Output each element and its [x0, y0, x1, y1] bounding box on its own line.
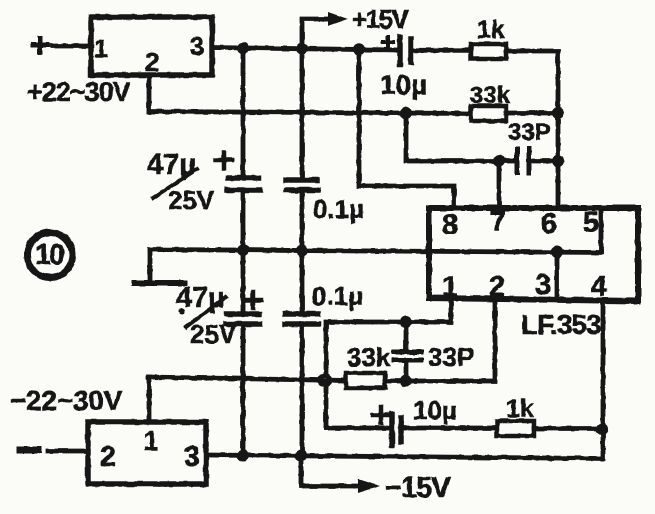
svg-text:3: 3	[535, 269, 551, 301]
node dot at V+ branch	[353, 43, 365, 55]
svg-text:25V: 25V	[168, 185, 215, 215]
plus mark C5	[383, 37, 393, 47]
capacitor C1 47u/25V (upper) wire top	[241, 48, 246, 175]
svg-text:4: 4	[591, 271, 607, 303]
wire R3 to pin2 branch	[385, 300, 495, 381]
wire + input to U1 pin1	[52, 44, 91, 49]
wire V+ branch to pin8	[359, 49, 454, 207]
C8 stub bottom	[404, 362, 409, 381]
wire feedback node to C6	[326, 426, 391, 431]
plus mark C1	[216, 152, 232, 168]
minus input terminal	[20, 447, 38, 454]
node dot 33k/33P left	[400, 107, 412, 119]
capacitor C2 0.1u (upper) wire top	[300, 48, 305, 177]
wire pin2 ground rail to 33k	[149, 112, 471, 114]
wire R1 to pin6 branch	[506, 51, 558, 207]
svg-text:33P: 33P	[428, 342, 474, 372]
wire - input to U2 pin2	[48, 449, 88, 454]
C1 wire bottom	[241, 192, 246, 250]
figure number circle 10	[28, 233, 73, 278]
svg-text:3: 3	[190, 31, 204, 61]
node dot 33P lower bottom	[400, 375, 412, 387]
svg-text:6: 6	[541, 208, 557, 240]
wire node down to 33P row	[406, 113, 516, 161]
junction feedback node	[318, 373, 332, 387]
svg-text:1k: 1k	[506, 395, 534, 423]
resistor R4 1k (lower)	[497, 421, 534, 436]
node dot 47u bottom	[237, 450, 249, 462]
ground rail (mid)	[150, 250, 601, 253]
fraction slash lower	[186, 297, 226, 327]
wire R2 to pin6 node	[506, 111, 558, 116]
+15V arrowhead	[328, 12, 348, 26]
node dot pin4 branch	[596, 423, 608, 435]
node dot 33P/pin6	[552, 155, 564, 167]
svg-text:3: 3	[184, 441, 200, 473]
node dot rail/pin6	[552, 107, 564, 119]
wire U3 pin1 to feedback node	[326, 300, 451, 428]
svg-text:−22~30V: −22~30V	[10, 385, 123, 416]
svg-text:25V: 25V	[190, 319, 237, 349]
wire U1 pin2 down	[147, 75, 152, 112]
wire pin7 branch down	[497, 161, 502, 207]
wire C6 to R4	[401, 426, 497, 431]
wire U3 pin4 down to -15V rail	[601, 301, 606, 459]
capacitor C3 47u/25V (lower) wire top	[241, 250, 246, 312]
capacitor C6 10u (lower) plates	[392, 414, 401, 445]
C2 plates	[286, 180, 318, 190]
wire U2 pin1 up to feedback rail	[147, 377, 152, 422]
capacitor C5 10u (series, top) plates	[400, 37, 411, 64]
node dot 47u mid	[237, 244, 249, 256]
C2 wire bottom	[300, 192, 305, 250]
wire C7 to pin6 node	[529, 159, 558, 164]
-15V stub wire	[301, 456, 358, 487]
svg-text:2: 2	[100, 441, 116, 473]
svg-text:10µ: 10µ	[380, 69, 427, 100]
svg-text:0.1µ: 0.1µ	[313, 194, 364, 224]
svg-text:10µ: 10µ	[413, 395, 457, 425]
-15V output rail	[206, 455, 602, 459]
svg-text:33k: 33k	[470, 82, 511, 109]
plus mark C3	[245, 292, 261, 308]
op-amp U3 LF353 box	[429, 208, 638, 301]
resistor R3 33k (lower)	[346, 373, 385, 388]
plus mark C6	[373, 407, 389, 423]
U3 inner divider vertical (pin5 bay)	[599, 208, 604, 252]
U3 pin3/4 divider vertical	[555, 252, 560, 300]
regulator U1 (positive, box 1-2-3)	[91, 17, 212, 75]
fraction slash upper	[153, 169, 197, 198]
node dot at 47u top	[237, 42, 249, 54]
svg-text:33P: 33P	[508, 119, 551, 146]
node dot 0.1u bottom	[295, 450, 307, 462]
svg-text:+15V: +15V	[352, 4, 410, 34]
resistor R2 33k (top)	[471, 106, 506, 121]
svg-text:8: 8	[442, 209, 458, 241]
svg-text:+22~30V: +22~30V	[27, 77, 131, 107]
node dot pin7 branch	[493, 155, 505, 167]
wire R4 to pin4 branch	[534, 426, 603, 431]
C4 wire bottom	[300, 326, 305, 455]
wire U1 pin3 output rail +15V	[212, 48, 398, 51]
regulator U2 (negative, box 2-1-3)	[88, 422, 206, 484]
wire C5 to R1	[411, 48, 471, 53]
svg-text:5: 5	[583, 207, 599, 239]
ground symbol	[148, 250, 153, 282]
svg-text:2: 2	[145, 47, 159, 77]
svg-text:0.1µ: 0.1µ	[312, 281, 363, 311]
C8 plates	[394, 352, 421, 360]
svg-text:7: 7	[490, 206, 506, 238]
capacitor C7 33P (top) plates	[517, 149, 529, 173]
node dot at 0.1u top	[296, 43, 308, 55]
+15V stub wire	[302, 19, 330, 49]
resistor R1 1k (top)	[471, 44, 506, 59]
node dot 33P lower top	[400, 316, 412, 328]
speck	[179, 308, 185, 314]
C4 plates	[285, 314, 318, 324]
capacitor C4 0.1u (lower) wire top	[300, 250, 305, 312]
C3 wire bottom	[241, 326, 246, 455]
svg-text:1: 1	[94, 35, 108, 63]
svg-text:−15V: −15V	[385, 472, 451, 504]
wire gnd rail to 33k lower	[149, 377, 347, 381]
node dot divider	[551, 246, 563, 258]
node dot 0.1u mid	[296, 245, 308, 257]
capacitor C8 33P (lower) stub top	[404, 322, 409, 350]
-15V arrowhead	[358, 479, 380, 493]
C3 plates	[226, 314, 260, 324]
svg-text:LF.353: LF.353	[521, 309, 601, 340]
svg-text:10: 10	[35, 239, 64, 271]
svg-text:1: 1	[143, 426, 158, 456]
svg-text:33k: 33k	[347, 342, 391, 372]
svg-text:1k: 1k	[477, 16, 505, 44]
C1 plates	[227, 178, 260, 190]
plus input terminal	[33, 38, 47, 52]
